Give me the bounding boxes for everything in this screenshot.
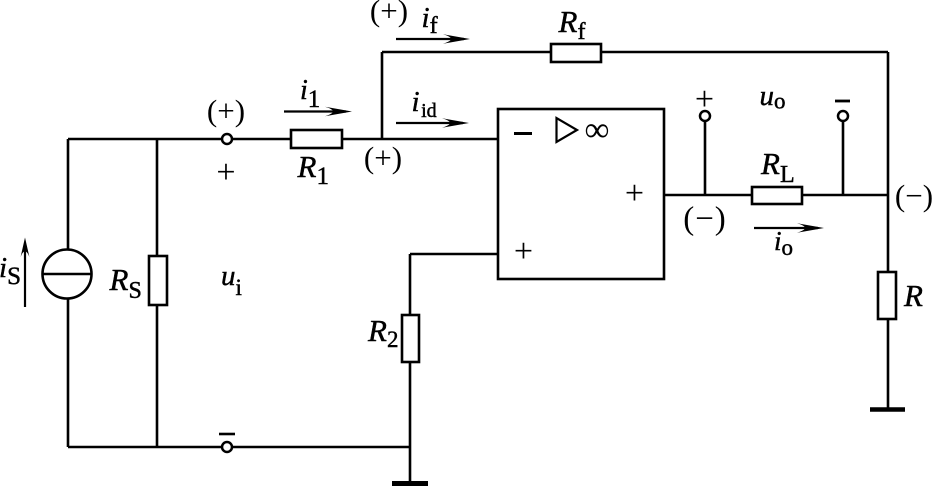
svg-text:(−): (−) xyxy=(895,178,932,213)
wire: non-inverting input xyxy=(410,253,498,256)
svg-text:(+): (+) xyxy=(370,0,408,28)
minus polarity overbar above bottom node xyxy=(219,433,235,436)
wire: output net xyxy=(664,194,888,197)
wire: R2 branch vertical xyxy=(409,254,412,481)
wire: vertical from feedback to inverting node xyxy=(381,52,384,139)
output plus terminal circle xyxy=(700,111,710,121)
current arrow iid xyxy=(396,122,463,124)
wire: Rs branch vertical xyxy=(156,139,159,447)
resistor R1 xyxy=(291,130,342,148)
resistor Rf xyxy=(551,44,601,62)
svg-text:(+): (+) xyxy=(207,93,245,128)
node terminal circle: input minus at bottom xyxy=(222,442,232,452)
svg-text:(−): (−) xyxy=(683,201,727,237)
current source arrow xyxy=(24,250,26,307)
output minus terminal circle xyxy=(838,111,848,121)
svg-text:(+): (+) xyxy=(364,140,402,175)
resistor R xyxy=(878,272,896,319)
wire: right vertical R branch xyxy=(887,52,890,408)
resistor R2 xyxy=(402,315,419,362)
svg-text:∞: ∞ xyxy=(585,110,610,149)
svg-text:+: + xyxy=(514,233,533,270)
current source iS xyxy=(43,250,92,299)
resistor Rs xyxy=(149,256,167,305)
wire: top feedback net xyxy=(382,51,888,54)
op-amp gain triangle xyxy=(557,118,578,142)
op-amp inverting input minus sign xyxy=(514,132,532,135)
wire: inverting input net from node to op-amp xyxy=(68,138,498,141)
wire: left vertical of current source branch xyxy=(67,139,70,447)
svg-text:+: + xyxy=(216,154,235,191)
svg-text:+: + xyxy=(625,175,644,212)
minus overbar above output minus terminal xyxy=(835,100,850,103)
svg-text:R: R xyxy=(903,278,923,313)
current arrow if xyxy=(396,38,464,40)
wire: bottom return xyxy=(68,446,410,449)
svg-text:+: + xyxy=(695,81,714,118)
op-amp U1 xyxy=(498,109,664,279)
node terminal circle: input plus xyxy=(222,134,232,144)
current arrow io xyxy=(754,227,818,229)
wire: minus terminal stem xyxy=(842,116,845,195)
ground under R2 xyxy=(392,481,428,486)
resistor RL xyxy=(752,187,802,204)
ground under R xyxy=(870,407,905,412)
current arrow i1 xyxy=(284,110,346,112)
wire: plus terminal stem xyxy=(704,116,707,195)
